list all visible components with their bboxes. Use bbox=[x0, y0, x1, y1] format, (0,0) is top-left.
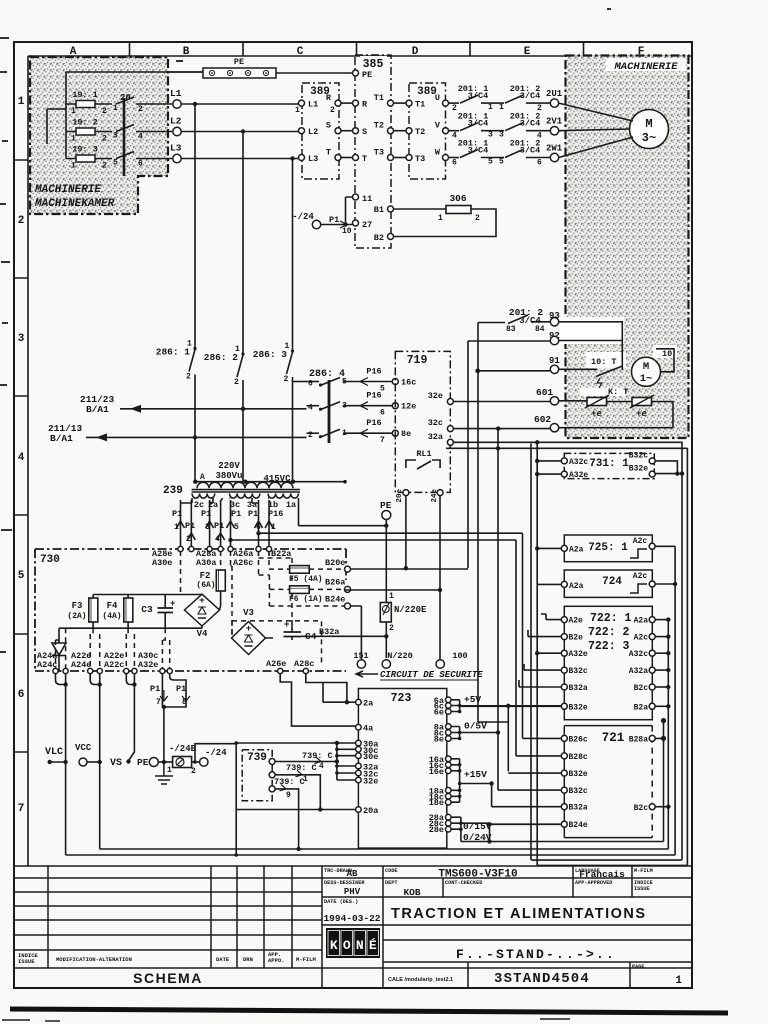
svg-text:P16: P16 bbox=[366, 418, 381, 428]
fuse F3 (2A) bbox=[92, 595, 94, 599]
terminal 385 T bbox=[353, 155, 359, 161]
terminal 723 20a bbox=[356, 807, 362, 813]
svg-text:6: 6 bbox=[452, 159, 457, 168]
svg-text:ISSUE: ISSUE bbox=[634, 886, 650, 892]
wire transformer stem P1 1 bbox=[180, 500, 182, 548]
svg-text:2: 2 bbox=[186, 373, 191, 382]
capacitor C3 bbox=[164, 595, 166, 609]
svg-text:28e: 28e bbox=[429, 825, 444, 835]
svg-text:2: 2 bbox=[452, 104, 457, 113]
svg-text:3: 3 bbox=[499, 131, 504, 140]
wire transformer stem P1 2 bbox=[190, 500, 192, 548]
svg-text:10: 10 bbox=[662, 349, 672, 359]
svg-text:2: 2 bbox=[18, 215, 25, 227]
svg-text:VLC: VLC bbox=[45, 747, 63, 758]
terminal L1 bbox=[173, 100, 181, 108]
wire A32e feed bbox=[537, 652, 561, 654]
transformer secondary windings bbox=[192, 494, 215, 499]
switch 20 pole 1 bbox=[116, 97, 134, 104]
svg-text:VCC: VCC bbox=[75, 743, 92, 753]
svg-text:380Vu: 380Vu bbox=[215, 471, 242, 481]
svg-text:11: 11 bbox=[362, 194, 372, 204]
svg-text:6e: 6e bbox=[434, 708, 444, 718]
svg-text:8: 8 bbox=[182, 698, 187, 707]
svg-text:C3: C3 bbox=[141, 604, 153, 615]
terminal 723 6a bbox=[446, 697, 452, 703]
svg-text:K: T: K: T bbox=[608, 387, 628, 397]
wire merged drops bbox=[66, 685, 164, 763]
svg-text:B26c: B26c bbox=[569, 735, 588, 744]
terminal 719 32c bbox=[447, 426, 453, 432]
wire dc bus bottom bbox=[59, 626, 202, 628]
rail left vertical 531 bbox=[530, 444, 532, 861]
svg-text:8e: 8e bbox=[401, 429, 411, 439]
wire 0V top rail bbox=[446, 447, 687, 449]
terminal 722 B2c bbox=[649, 684, 655, 690]
relay box 719 bbox=[395, 351, 450, 492]
svg-text:7: 7 bbox=[156, 698, 161, 707]
svg-text:1: 1 bbox=[271, 523, 276, 532]
wire bundle +15V bbox=[451, 759, 492, 802]
scan artifact bottom thick line bbox=[10, 1009, 728, 1013]
svg-text:A32a: A32a bbox=[629, 667, 648, 676]
svg-text:+: + bbox=[199, 595, 205, 606]
terminal 385 pin 27 bbox=[353, 220, 359, 226]
svg-text:P1: P1 bbox=[329, 215, 339, 225]
wire 722 right vertical bbox=[667, 620, 669, 849]
terminal box 389 (left) bbox=[302, 83, 339, 179]
terminal 722 A2e bbox=[561, 617, 567, 623]
svg-text:B24e: B24e bbox=[325, 595, 345, 605]
wire B32a feed bbox=[519, 680, 561, 687]
terminal 722 A2c bbox=[649, 634, 655, 640]
terminal 723 8c bbox=[446, 730, 452, 736]
svg-text:6: 6 bbox=[256, 523, 261, 532]
svg-text:1: 1 bbox=[499, 103, 504, 112]
svg-text:719: 719 bbox=[407, 354, 428, 367]
svg-text:1: 1 bbox=[438, 214, 443, 223]
terminal 719 32a bbox=[447, 439, 453, 445]
svg-text:PAGE: PAGE bbox=[632, 964, 644, 970]
terminal 723 4a bbox=[356, 724, 362, 730]
svg-text:B2a: B2a bbox=[634, 703, 649, 712]
svg-text:601: 601 bbox=[536, 387, 553, 398]
svg-text:B2e: B2e bbox=[569, 634, 584, 643]
svg-text:N/220E: N/220E bbox=[394, 605, 427, 615]
resistor 306 bbox=[394, 208, 446, 210]
svg-text:F5 (4A): F5 (4A) bbox=[289, 575, 323, 584]
primary wire taps bbox=[195, 481, 345, 483]
svg-text:286: 1: 286: 1 bbox=[156, 347, 191, 358]
terminals 730 top edge bbox=[178, 546, 183, 551]
svg-text:AB: AB bbox=[347, 869, 358, 879]
terminal 721 B32a bbox=[561, 804, 567, 810]
svg-text:P16: P16 bbox=[366, 367, 381, 377]
terminal 731 B32e bbox=[649, 471, 655, 477]
svg-text:T1: T1 bbox=[374, 93, 384, 103]
svg-text:2: 2 bbox=[389, 624, 394, 633]
svg-text:725: 1: 725: 1 bbox=[588, 542, 628, 554]
svg-text:U: U bbox=[435, 93, 440, 103]
svg-text:30e: 30e bbox=[363, 752, 378, 762]
wire dc bus top bbox=[93, 594, 202, 596]
svg-text:286: 2: 286: 2 bbox=[204, 352, 239, 363]
terminal 719 24e bbox=[437, 490, 443, 496]
terminal 719 20e bbox=[403, 490, 409, 496]
rail A32 outer bbox=[681, 442, 683, 861]
svg-text:3: 3 bbox=[113, 132, 118, 141]
terminal 723 6c bbox=[446, 703, 452, 709]
svg-text:L2: L2 bbox=[170, 116, 182, 127]
svg-text:P1: P1 bbox=[214, 521, 224, 531]
terminal 389L T bbox=[335, 155, 341, 161]
wire B2e feed bbox=[528, 630, 561, 637]
wire A26e to 2a area bbox=[280, 674, 355, 727]
terminal 723 18e bbox=[446, 799, 452, 805]
terminal 385 R bbox=[353, 100, 359, 106]
wire winding elbows bbox=[181, 498, 299, 526]
relay box 725:1 bbox=[564, 535, 652, 562]
wire 601 heaters loop bbox=[559, 401, 673, 428]
svg-text:MACHINERIE: MACHINERIE bbox=[613, 61, 678, 73]
svg-text:SCHEMA: SCHEMA bbox=[133, 970, 203, 986]
heater element 2 bbox=[632, 398, 652, 406]
wire to 719 8e with P16 arrow bbox=[343, 432, 392, 434]
svg-text:V: V bbox=[435, 121, 441, 131]
wire 20a bbox=[236, 809, 355, 811]
terminal 723 2a bbox=[356, 699, 362, 705]
svg-text:F4: F4 bbox=[107, 601, 118, 611]
svg-text:B32e: B32e bbox=[569, 703, 588, 712]
svg-text:O: O bbox=[343, 938, 351, 953]
white clearing for sensor circuit bbox=[560, 317, 624, 344]
wire B32e net vertical bbox=[507, 706, 509, 772]
machinerie machinekamer shaded box bbox=[30, 57, 168, 214]
wire RL1 20e drop bbox=[405, 496, 407, 569]
wire B2c right bbox=[656, 806, 669, 808]
svg-text:7: 7 bbox=[380, 436, 385, 445]
wire to 719 16c with P16 arrow bbox=[343, 381, 392, 383]
svg-text:B32c: B32c bbox=[629, 452, 648, 461]
wire bundle 0/15V 0/24V bbox=[451, 817, 490, 841]
svg-text:20a: 20a bbox=[363, 806, 378, 816]
svg-text:5: 5 bbox=[488, 158, 493, 167]
wire 32a bus and A2a vertical bbox=[454, 442, 683, 584]
wire T to 385 bbox=[341, 157, 353, 159]
svg-text:(2A): (2A) bbox=[67, 612, 86, 621]
wire R to 385 bbox=[341, 102, 353, 104]
svg-text:730: 730 bbox=[40, 554, 60, 566]
svg-text:3~: 3~ bbox=[642, 131, 656, 145]
svg-text:1: 1 bbox=[488, 103, 493, 112]
svg-text:B2c: B2c bbox=[634, 804, 649, 813]
svg-text:S: S bbox=[326, 121, 331, 131]
svg-text:F6 (1A): F6 (1A) bbox=[289, 595, 323, 604]
fuse F5 (4A) bbox=[269, 568, 344, 570]
svg-text:R: R bbox=[326, 93, 332, 103]
svg-text:A2c: A2c bbox=[633, 537, 648, 546]
terminal 721 B24e bbox=[561, 821, 567, 827]
wire 724 out right bbox=[656, 583, 676, 585]
terminals 730 bottom edge bbox=[53, 668, 58, 673]
svg-text:M: M bbox=[643, 361, 649, 373]
svg-text:84: 84 bbox=[535, 325, 545, 334]
svg-text:2: 2 bbox=[186, 535, 191, 544]
svg-text:CALE /modular/p_test2.1: CALE /modular/p_test2.1 bbox=[388, 977, 453, 983]
terminal 722 A32e bbox=[561, 650, 567, 656]
terminal box 385 bbox=[355, 55, 391, 248]
terminal 722 B32c bbox=[561, 667, 567, 673]
svg-text:286: 3: 286: 3 bbox=[253, 349, 288, 360]
terminal 731 A32c bbox=[561, 458, 567, 464]
terminal 739 c1 bbox=[269, 759, 275, 765]
wire bundle 18 bbox=[451, 790, 460, 802]
svg-text:4: 4 bbox=[215, 535, 220, 544]
wire 2V1 to motor bbox=[559, 129, 630, 131]
svg-text:4: 4 bbox=[18, 452, 25, 464]
svg-text:P1: P1 bbox=[185, 521, 195, 531]
svg-text:B28a: B28a bbox=[629, 736, 648, 745]
svg-text:E: E bbox=[524, 46, 531, 58]
dashed box around V3/C4 bbox=[232, 621, 322, 664]
wire pairs below 730 merging bbox=[56, 674, 66, 685]
wire A2e feed bbox=[541, 614, 561, 620]
svg-text:S: S bbox=[362, 127, 367, 137]
svg-text:+e: +e bbox=[591, 409, 602, 419]
wire transformer stem P1 5 bbox=[230, 500, 232, 548]
junction node L1 bbox=[193, 102, 197, 106]
svg-text:2: 2 bbox=[138, 105, 143, 114]
wire 601 to 719 32e bbox=[454, 401, 551, 403]
terminal 723 32a bbox=[356, 763, 362, 769]
terminal 731 A32e bbox=[561, 471, 567, 477]
svg-text:DATE (DES.): DATE (DES.) bbox=[324, 899, 358, 905]
wire transformer stem P1 6 bbox=[258, 500, 260, 548]
svg-text:A2a: A2a bbox=[634, 617, 649, 626]
svg-text:B/A1: B/A1 bbox=[86, 404, 109, 415]
svg-text:RL1: RL1 bbox=[416, 449, 431, 459]
svg-text:A2e: A2e bbox=[569, 617, 584, 626]
wire pair 4 with P1 loop bbox=[162, 674, 186, 707]
svg-text:T2: T2 bbox=[415, 127, 425, 137]
svg-text:T: T bbox=[326, 148, 331, 158]
svg-text:F3: F3 bbox=[72, 601, 83, 611]
svg-text:2V1: 2V1 bbox=[546, 117, 563, 127]
switch 286:4 pole 8e bbox=[307, 432, 320, 434]
svg-text:A30e: A30e bbox=[152, 558, 172, 568]
svg-text:1: 1 bbox=[71, 162, 76, 171]
svg-text:1: 1 bbox=[71, 135, 76, 144]
terminal 389R T3 bbox=[406, 155, 412, 161]
svg-text:N: N bbox=[356, 938, 364, 953]
wire 385 T1 to 389R bbox=[394, 102, 406, 104]
svg-text:722: 1: 722: 1 bbox=[590, 612, 632, 625]
machinerie shaded box (right) bbox=[566, 56, 689, 439]
svg-text:8e: 8e bbox=[434, 735, 444, 745]
svg-text:3: 3 bbox=[488, 131, 493, 140]
svg-text:3/C4: 3/C4 bbox=[520, 119, 540, 129]
svg-text:9: 9 bbox=[286, 791, 291, 800]
arrows P1 7 / P1 8 bbox=[160, 690, 168, 701]
terminal box 389 (right) bbox=[409, 83, 446, 179]
svg-text:4a: 4a bbox=[363, 724, 373, 734]
svg-text:CIRCUIT DE SECURITE: CIRCUIT DE SECURITE bbox=[380, 670, 483, 680]
terminal 721 B28a bbox=[649, 735, 655, 741]
wire 725 out right bbox=[656, 546, 676, 855]
scan artifact marks left margin bbox=[0, 9, 611, 652]
svg-text:0/15V: 0/15V bbox=[463, 821, 492, 832]
switch 20 pole 2 bbox=[116, 125, 134, 132]
svg-text:5: 5 bbox=[234, 523, 239, 532]
svg-text:731: 1: 731: 1 bbox=[589, 458, 629, 470]
svg-text:VS: VS bbox=[110, 758, 122, 769]
svg-text:2: 2 bbox=[475, 214, 480, 223]
terminal 721 B26c bbox=[561, 735, 567, 741]
svg-text:2U1: 2U1 bbox=[546, 89, 563, 99]
wire 385 T3 to 389R bbox=[394, 157, 406, 159]
terminal 723 28c bbox=[446, 820, 452, 826]
fuse F4 (4A) bbox=[127, 595, 129, 599]
svg-text:W: W bbox=[435, 148, 441, 158]
svg-text:19: 1: 19: 1 bbox=[72, 90, 98, 100]
terminal 389R T1 bbox=[406, 100, 412, 106]
svg-text:2: 2 bbox=[234, 378, 239, 387]
diode A24 bbox=[58, 628, 60, 644]
terminal 722 A32c bbox=[649, 650, 655, 656]
terminal 389L L2 bbox=[299, 128, 305, 134]
wire 3c net to B28c bbox=[231, 540, 517, 756]
fuse 19:2 bbox=[66, 131, 112, 133]
terminal 723 18a bbox=[446, 788, 452, 794]
wire transformer stem P1 4 bbox=[220, 500, 222, 548]
wire 93 sensor loop bbox=[559, 322, 623, 370]
wire -/24B up to 739 bbox=[195, 744, 238, 762]
svg-text:16c: 16c bbox=[401, 378, 416, 388]
svg-text:PE: PE bbox=[362, 70, 372, 80]
wire motor 10 tap bbox=[656, 349, 674, 372]
svg-text:B32e: B32e bbox=[629, 465, 648, 474]
svg-text:A22c: A22c bbox=[104, 660, 124, 670]
wire L1 to 389 bbox=[181, 103, 302, 105]
svg-text:10: 10 bbox=[342, 227, 352, 236]
svg-text:A32e: A32e bbox=[569, 471, 588, 480]
fuse F2 (6A) bbox=[220, 551, 222, 570]
svg-text:+: + bbox=[246, 623, 252, 634]
terminal 731 B32c bbox=[649, 458, 655, 464]
bus line 866 bbox=[537, 864, 687, 866]
svg-text:DEPT: DEPT bbox=[385, 880, 397, 886]
svg-text:4: 4 bbox=[452, 132, 457, 141]
bus line 0/24V rail bbox=[461, 841, 664, 843]
wire B32c feed bbox=[524, 664, 561, 670]
label CIRCUIT DE SECURITE bbox=[356, 671, 378, 677]
svg-text:239: 239 bbox=[163, 485, 183, 497]
relay box 721 bbox=[564, 726, 652, 838]
svg-text:1: 1 bbox=[18, 96, 25, 108]
svg-text:P1: P1 bbox=[248, 509, 258, 519]
wire 2W1 to motor bbox=[559, 137, 633, 158]
terminal 389R W bbox=[443, 155, 449, 161]
terminal 389L L1 bbox=[299, 100, 305, 106]
terminal 719 12e bbox=[392, 403, 398, 409]
box 730 bbox=[35, 549, 346, 671]
svg-text:722: 3: 722: 3 bbox=[588, 640, 630, 653]
svg-text:5: 5 bbox=[499, 158, 504, 167]
svg-text:A26e: A26e bbox=[266, 659, 286, 669]
svg-text:B32a: B32a bbox=[569, 684, 588, 693]
svg-text:739: C: 739: C bbox=[286, 763, 317, 773]
wire 92 net vertical bbox=[351, 341, 550, 569]
svg-text:A2c: A2c bbox=[633, 572, 648, 581]
svg-text:83: 83 bbox=[506, 325, 516, 334]
terminal 389R T2 bbox=[406, 128, 412, 134]
svg-text:P16: P16 bbox=[268, 509, 283, 519]
svg-text:V3: V3 bbox=[243, 608, 254, 618]
svg-text:602: 602 bbox=[534, 414, 551, 425]
wire L2 to 389 bbox=[181, 131, 302, 133]
svg-text:20e: 20e bbox=[396, 489, 404, 503]
svg-text:1: 1 bbox=[235, 345, 240, 354]
relay box 723 bbox=[358, 689, 446, 849]
terminal 385 pin 11 bbox=[353, 194, 359, 200]
svg-text:-/24B: -/24B bbox=[169, 744, 197, 754]
svg-text:P1: P1 bbox=[176, 684, 186, 694]
terminal 739 c2 bbox=[269, 772, 275, 778]
svg-text:3/C4: 3/C4 bbox=[520, 91, 540, 101]
svg-text:A26c: A26c bbox=[233, 558, 253, 568]
terminal 722 B32e bbox=[561, 703, 567, 709]
svg-text:6: 6 bbox=[138, 160, 143, 169]
svg-text:PHV: PHV bbox=[344, 887, 361, 897]
svg-text:1~: 1~ bbox=[640, 373, 653, 385]
svg-text:722: 2: 722: 2 bbox=[588, 626, 630, 639]
terminal B20e bbox=[345, 566, 351, 572]
terminal 722 A32a bbox=[649, 667, 655, 673]
svg-text:A24e: A24e bbox=[71, 660, 91, 670]
contactor 201:1 pole row 2U1 bbox=[449, 102, 459, 104]
svg-text:A: A bbox=[200, 473, 205, 482]
svg-text:723: 723 bbox=[391, 692, 412, 705]
svg-text:1: 1 bbox=[167, 766, 172, 775]
svg-text:+15V: +15V bbox=[464, 769, 487, 780]
terminal -/24 bbox=[312, 220, 320, 228]
KONE logo bbox=[326, 928, 380, 958]
terminal 389L L3 bbox=[299, 155, 305, 161]
wire 2U1 to motor bbox=[559, 103, 633, 121]
svg-text:3/C4: 3/C4 bbox=[468, 119, 488, 129]
svg-text:19: 2: 19: 2 bbox=[72, 118, 98, 128]
svg-text:4: 4 bbox=[319, 762, 324, 771]
svg-text:T: T bbox=[362, 154, 367, 164]
terminal -/24 (bottom) bbox=[200, 758, 208, 766]
svg-text:A2c: A2c bbox=[634, 634, 649, 643]
relay box 724 bbox=[564, 570, 652, 597]
svg-text:T1: T1 bbox=[415, 100, 425, 110]
wire bundle +5V bbox=[451, 700, 564, 712]
svg-text:27: 27 bbox=[362, 220, 372, 230]
svg-text:16e: 16e bbox=[429, 767, 444, 777]
svg-text:739: C: 739: C bbox=[274, 777, 305, 787]
svg-text:2: 2 bbox=[308, 431, 313, 440]
svg-text:24e: 24e bbox=[431, 489, 439, 503]
wire A28c to 2a bbox=[306, 674, 356, 703]
svg-text:3/C4: 3/C4 bbox=[520, 146, 540, 156]
svg-text:F2: F2 bbox=[200, 571, 211, 581]
svg-text:B24e: B24e bbox=[569, 821, 588, 830]
wire B32c/B32e tie bbox=[656, 461, 683, 474]
svg-text:4: 4 bbox=[138, 133, 143, 142]
terminal L2 bbox=[173, 127, 181, 135]
